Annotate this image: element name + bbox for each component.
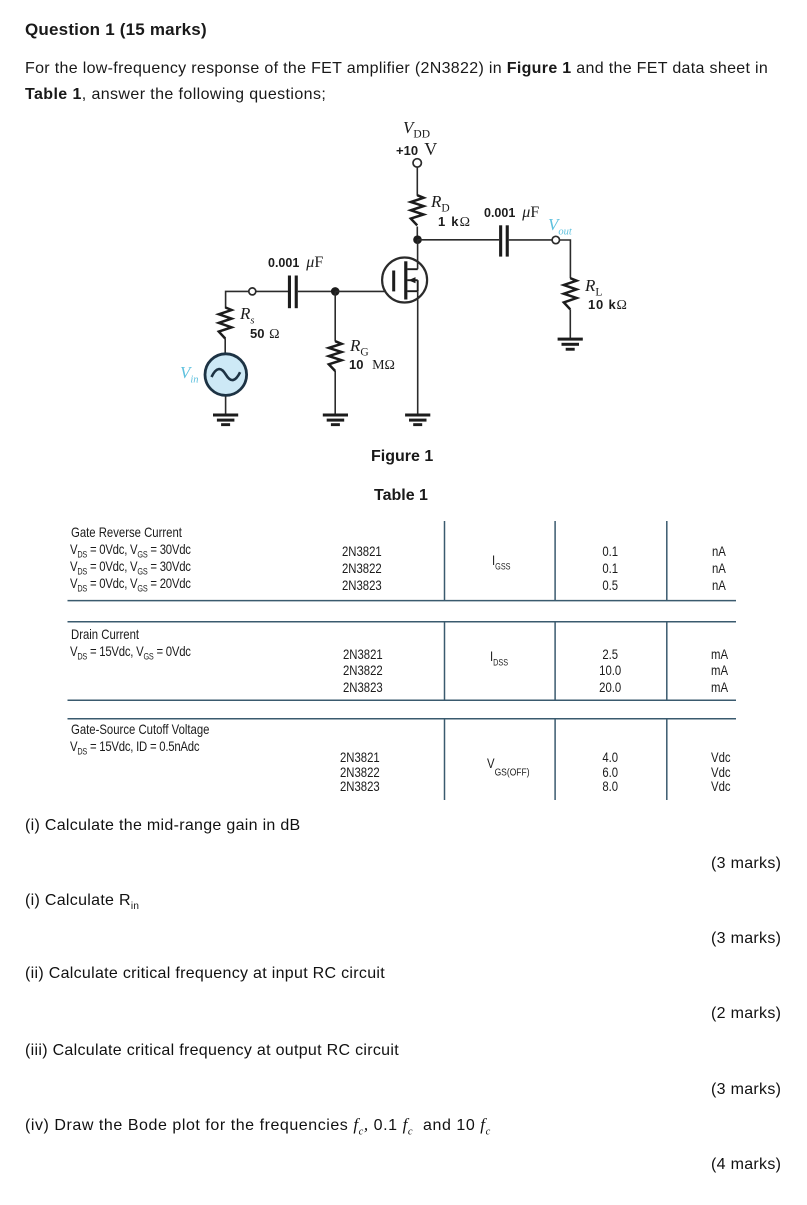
- ground (Vin): [213, 414, 238, 427]
- label 10 kOhm: [588, 296, 627, 314]
- wire input terminal to source corner: [226, 291, 249, 308]
- wire RG to ground: [334, 371, 336, 415]
- resistor RL: [564, 278, 577, 309]
- label Rs: [240, 304, 254, 324]
- Vout terminal (open circle): [552, 236, 559, 243]
- label 1 kOhm: [438, 213, 470, 231]
- paragraph line 1: [25, 60, 768, 78]
- ground (RG): [323, 414, 348, 427]
- ground (RL): [558, 338, 583, 351]
- label VDD: [403, 118, 430, 138]
- label 0.001 uF (output cap): [484, 204, 539, 222]
- wire FET source to ground: [417, 291, 419, 414]
- capacitor C1 0.001 uF (input): [288, 276, 298, 309]
- Figure 1 caption: [371, 448, 433, 466]
- wire Rs to Vin source: [224, 338, 226, 354]
- wire capacitor to Vout terminal: [509, 239, 552, 241]
- wire gate node down to RG: [334, 291, 336, 341]
- source Vin (sine source): [205, 354, 247, 396]
- table rules: [68, 521, 737, 800]
- input terminal (open circle): [249, 288, 256, 295]
- capacitor C2 0.001 uF (output): [499, 225, 509, 256]
- wire Vin to ground: [225, 396, 227, 414]
- resistor RD: [411, 195, 424, 225]
- resistor Rs: [219, 307, 232, 338]
- label Vout: [548, 215, 572, 235]
- node gate junction: [331, 287, 340, 296]
- paragraph line 2: [25, 86, 326, 104]
- wire C1 to gate node: [298, 290, 335, 292]
- label RL: [585, 276, 602, 296]
- wire gate node to FET gate: [335, 290, 392, 292]
- wire input terminal to C1: [256, 290, 288, 292]
- wire drain node to FET drain: [417, 240, 419, 269]
- label RG: [350, 336, 369, 356]
- Table 1 caption: [374, 487, 428, 505]
- wire Vout terminal to RL top: [560, 240, 571, 278]
- label +10 V: [396, 139, 437, 160]
- transistor Q1 FET 2N3822: [382, 258, 427, 303]
- ground (FET source): [405, 414, 430, 427]
- heading: [25, 20, 207, 40]
- wire RL bottom to ground: [569, 309, 571, 338]
- label 0.001 uF (input cap): [268, 254, 323, 272]
- wire RD bottom to drain node: [416, 227, 418, 241]
- wire VDD terminal to RD top: [416, 167, 418, 195]
- resistor RG: [329, 341, 342, 371]
- label Vin: [180, 363, 199, 383]
- wire node to output capacitor: [418, 239, 500, 241]
- label 10 MOhm: [349, 356, 395, 374]
- label RD: [431, 192, 450, 212]
- node drain junction: [413, 235, 422, 244]
- label 50 Ohm: [250, 325, 279, 343]
- VDD terminal (open circle): [413, 159, 421, 167]
